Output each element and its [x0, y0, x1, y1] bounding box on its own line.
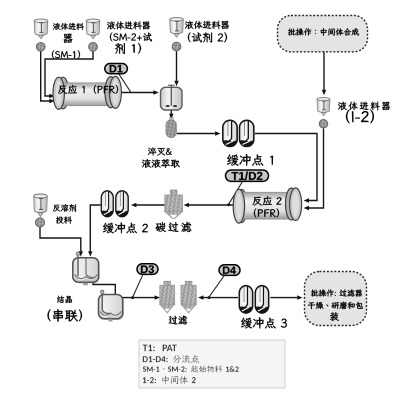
- pump P3: [172, 42, 181, 51]
- label: feeder reagent 2: [185, 21, 229, 29]
- wire: buffer point 3 to batch operation box: [270, 297, 297, 299]
- label: carbon filtration: [156, 222, 192, 232]
- filter vessel B: [181, 281, 196, 313]
- label: buffer point 2: [103, 223, 148, 234]
- extraction column: [166, 118, 176, 138]
- quench stirred vessel: [161, 85, 183, 110]
- buffer point 1 vessel A: [223, 120, 237, 146]
- wire: feeder SM-2 pump to reactor R1 inlet: [45, 51, 93, 96]
- label: feeder SM-2: [107, 21, 150, 29]
- wire: D4 pointer line: [209, 276, 224, 296]
- label: buffer point 1: [227, 154, 273, 166]
- wire: carbon filter to buffer point 2: [136, 204, 164, 206]
- wire: feeder reagent-2 pump down to quench vessel: [176, 51, 178, 81]
- split point oval D4: [219, 265, 240, 276]
- junction on filter B feed line: [208, 296, 211, 299]
- feeder bottle SM-2: [86, 19, 100, 39]
- label: quench and extraction: [148, 147, 172, 155]
- wire: reactor R2 outlet to carbon filter: [189, 204, 237, 206]
- label: buffer point 3: [241, 317, 287, 328]
- filter vessel A: [160, 281, 175, 313]
- feeder bottle reagent 2: [170, 18, 184, 38]
- batch operation box: intermediate synthesis: [278, 16, 368, 52]
- legend line 1-2 intermediate 2: [143, 376, 196, 385]
- label: feeder SM-1: [53, 23, 84, 30]
- legend line D1-D4 split points: [143, 355, 199, 363]
- junction on crystallizer outlet line: [131, 296, 134, 299]
- buffer point 3 vessel A: [239, 286, 252, 313]
- wire: reactor R1 outlet to quench vessel: [122, 92, 154, 94]
- label: reactor R2: [253, 196, 282, 205]
- wire: T1/D2 pointer line: [229, 182, 243, 204]
- wire: buffer point 1 to reactor R2 inlet: [255, 134, 317, 201]
- wire: feeder SM-1 pump to reactor R1 inlet: [41, 51, 50, 101]
- batch operation box: filter drying milling packaging: [305, 272, 367, 326]
- feeder bottle I-2: [317, 98, 330, 116]
- wire: feeder I-2 pump to reactor R2 inlet: [309, 129, 324, 208]
- wire: antisolvent feeder to crystallizer 1: [40, 227, 81, 251]
- pump P1: [36, 42, 45, 51]
- wire: D1 pointer line: [119, 74, 131, 92]
- buffer point 2 vessel B: [116, 191, 128, 217]
- PAT / split point oval T1/D2: [226, 170, 269, 181]
- wire: buffer point 2 to crystallizer 1: [90, 205, 100, 251]
- carbon filter: [165, 190, 183, 219]
- label: antisolvent feed: [53, 204, 76, 211]
- pump P2: [89, 42, 98, 51]
- crystallizer 2: [99, 290, 124, 321]
- legend line T1 PAT: [143, 345, 177, 352]
- wire: buffer point 3 to filter B: [203, 297, 238, 299]
- split point oval D3: [137, 264, 158, 275]
- junction on R2 outlet line: [227, 203, 230, 206]
- buffer point 3 vessel B: [255, 286, 268, 313]
- crystallizer 1: [73, 252, 100, 285]
- legend box: [139, 340, 285, 388]
- label: crystallization in series: [57, 296, 72, 303]
- label: feeder I-2: [338, 102, 390, 111]
- wire: D3 pointer line: [133, 275, 143, 296]
- split point oval D1: [105, 64, 128, 74]
- reactor R1 plug flow reactor: [53, 76, 121, 109]
- wire: crystallizer 2 to filter A: [123, 297, 155, 299]
- reactor R2 plug flow reactor: [233, 188, 301, 223]
- pump P5: [35, 218, 44, 227]
- wire: quench vessel to extraction column: [170, 111, 172, 115]
- wire: batch operation box to feeder I-2: [323, 52, 325, 90]
- buffer point 2 vessel A: [101, 191, 113, 217]
- legend line SM-1 SM-2 starting materials: [143, 365, 239, 372]
- wire: extraction column to buffer point 1: [177, 133, 216, 135]
- buffer point 1 vessel B: [240, 120, 254, 146]
- feeder bottle SM-1: [34, 19, 48, 39]
- wire: crystallizer 1 to crystallizer 2 dip tube: [93, 282, 115, 300]
- pump P4: [319, 120, 328, 129]
- label: reactor R1: [58, 85, 118, 94]
- feeder bottle antisolvent: [34, 194, 48, 217]
- label: filtration: [169, 316, 188, 325]
